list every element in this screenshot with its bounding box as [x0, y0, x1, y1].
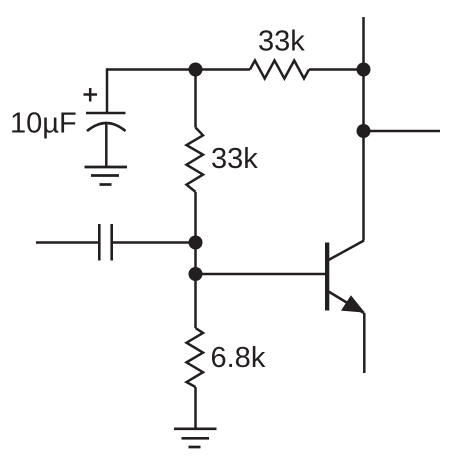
capacitor C1 plus sign [84, 88, 98, 102]
wire input left of C2 [36, 241, 99, 244]
ground symbol under R3 [174, 429, 217, 447]
wire R2 to node B [194, 192, 197, 243]
transistor Q1 emitter arrowhead [341, 295, 365, 312]
wire output horizontal [364, 130, 441, 133]
wire base (node C to Q1) [196, 273, 326, 276]
wire right vertical (supply rail / collector line) [362, 17, 365, 241]
wire C2 to node B [112, 241, 196, 244]
transistor Q1 emitter diagonal [329, 292, 365, 314]
wire emitter vertical [363, 313, 366, 373]
wire R3 to ground [194, 387, 197, 429]
transistor Q1 collector diagonal [329, 241, 365, 261]
node C junction [189, 267, 203, 281]
wire capacitor C1 top lead [106, 68, 109, 113]
wire node A to R2 [194, 70, 197, 128]
node B junction [189, 236, 203, 250]
wire top horizontal right segment [309, 68, 364, 71]
transistor Q1 base bar [325, 243, 329, 311]
node junction top-right [357, 63, 371, 77]
svg-text:33k: 33k [258, 26, 305, 58]
wire node B to node C [194, 243, 197, 275]
capacitor C1 10uF electrolytic [86, 113, 126, 131]
svg-text:6.8k: 6.8k [211, 342, 266, 374]
svg-text:33k: 33k [211, 143, 258, 175]
resistor R2 33k (vertical) [187, 128, 204, 192]
node junction right output [357, 124, 371, 138]
resistor R3 6.8k (vertical) [187, 328, 204, 387]
ground symbol under C1 [85, 167, 128, 185]
svg-text:10µF: 10µF [10, 108, 77, 140]
wire top horizontal left segment [107, 68, 250, 71]
node A junction top-left [189, 63, 203, 77]
wire node C to R3 [194, 274, 197, 328]
capacitor C2 coupling [99, 224, 111, 261]
resistor R1 33k (top horizontal) [250, 61, 309, 79]
wire capacitor C1 bottom lead [105, 125, 108, 168]
